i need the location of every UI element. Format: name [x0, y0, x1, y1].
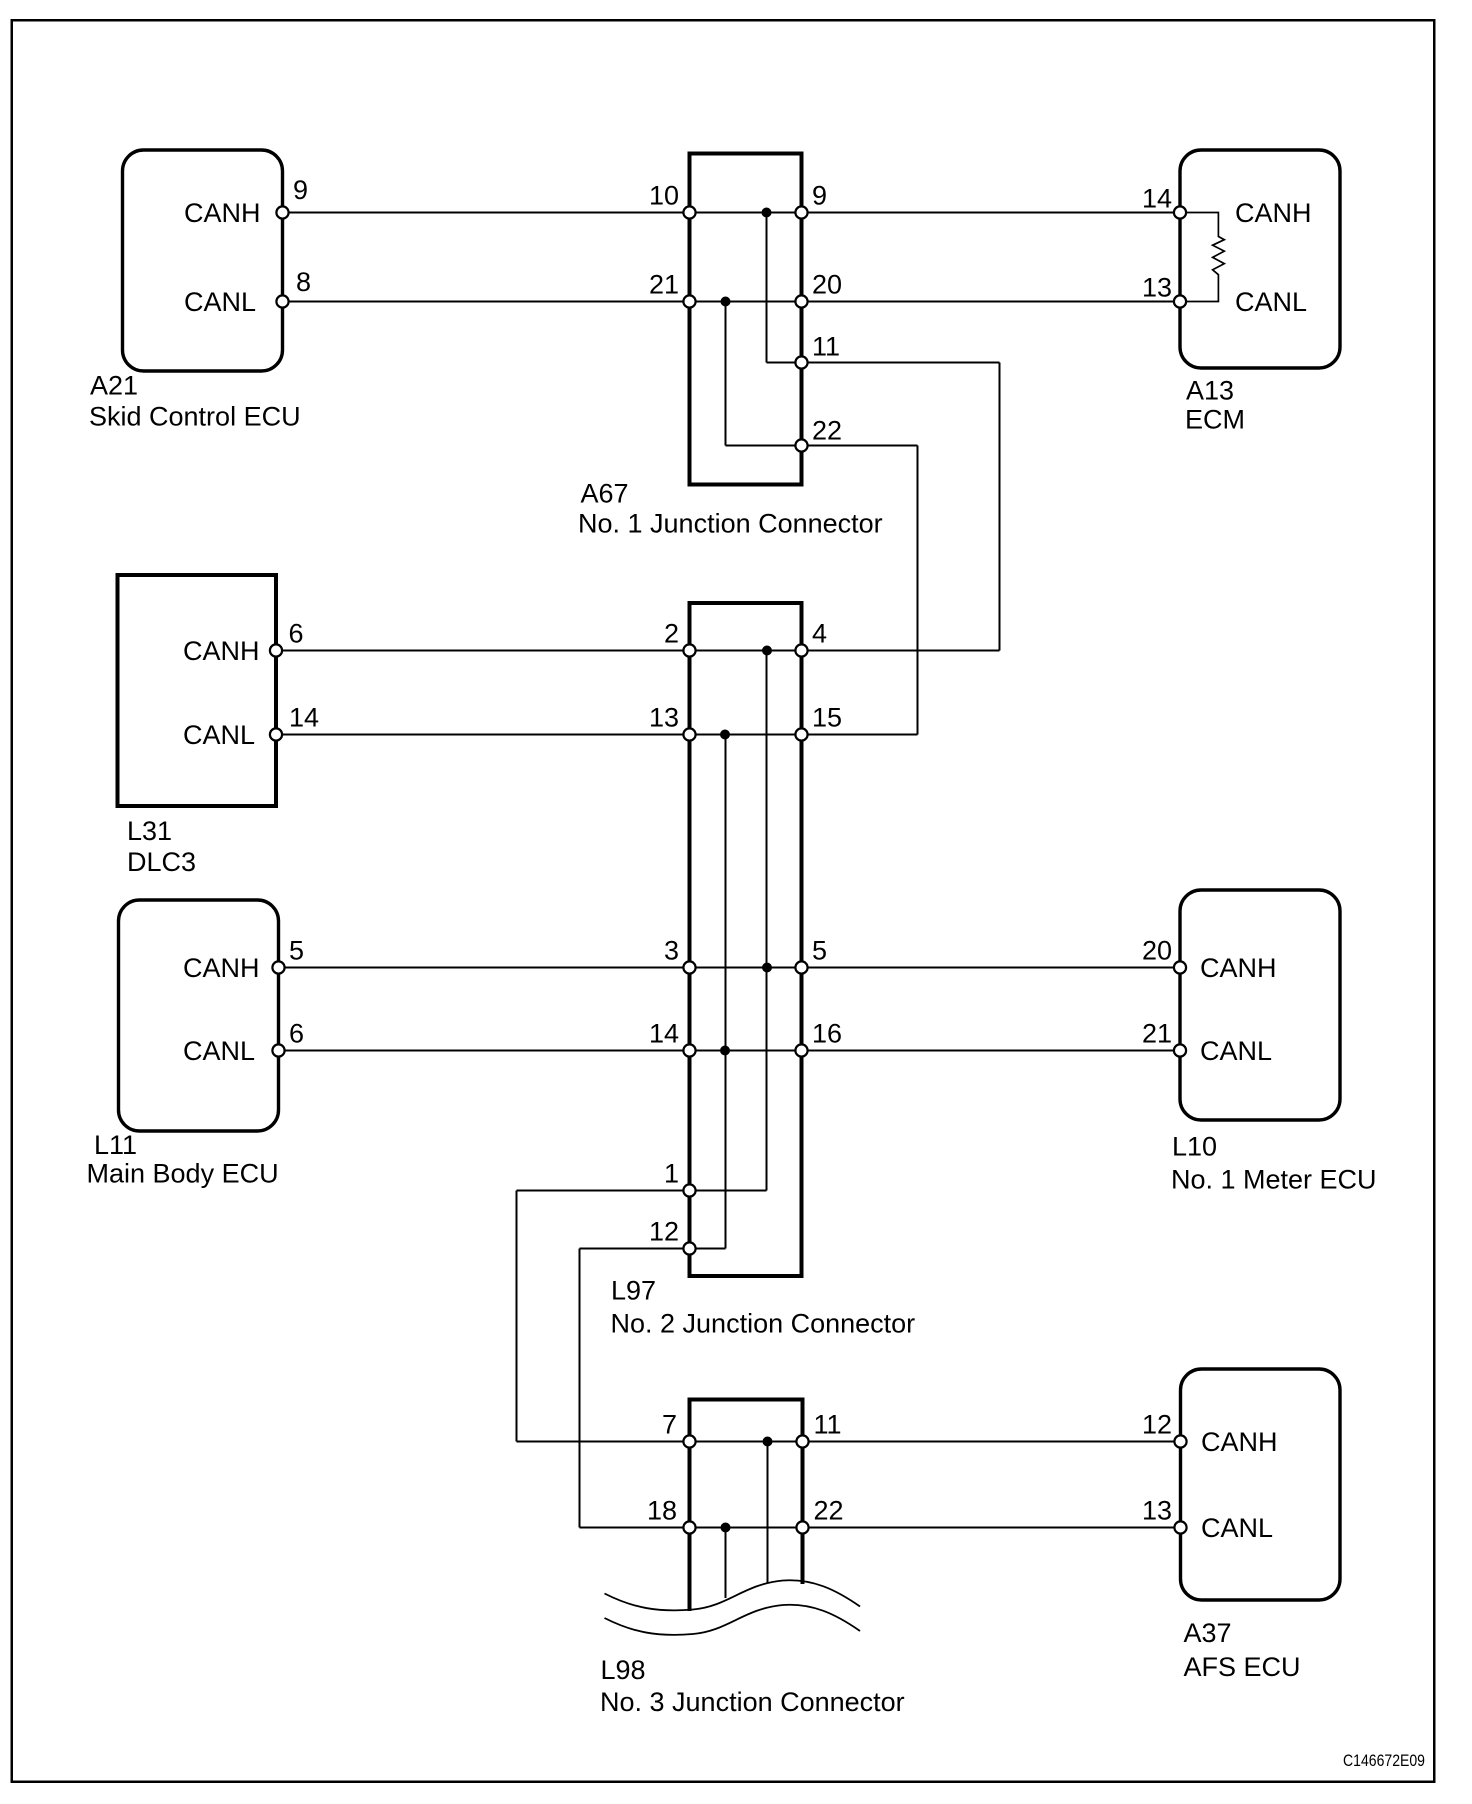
svg-text:6: 6 — [289, 1019, 304, 1049]
svg-text:22: 22 — [812, 416, 842, 446]
svg-text:9: 9 — [812, 181, 827, 211]
svg-text:No. 2 Junction Connector: No. 2 Junction Connector — [611, 1309, 916, 1339]
svg-text:A37: A37 — [1184, 1618, 1232, 1648]
svg-text:L97: L97 — [611, 1276, 656, 1306]
svg-text:CANH: CANH — [1201, 1427, 1278, 1457]
svg-text:16: 16 — [812, 1019, 842, 1049]
svg-text:CANH: CANH — [183, 636, 260, 666]
svg-text:C146672E09: C146672E09 — [1343, 1751, 1425, 1770]
svg-text:Main Body ECU: Main Body ECU — [87, 1159, 279, 1189]
svg-text:9: 9 — [293, 175, 308, 205]
svg-text:8: 8 — [296, 267, 311, 297]
svg-text:CANL: CANL — [183, 1036, 255, 1066]
svg-text:ECM: ECM — [1185, 405, 1245, 435]
svg-text:5: 5 — [289, 936, 304, 966]
svg-text:A21: A21 — [90, 371, 138, 401]
svg-text:21: 21 — [649, 270, 679, 300]
svg-text:A67: A67 — [581, 479, 629, 509]
svg-text:13: 13 — [649, 703, 679, 733]
svg-text:1: 1 — [664, 1159, 679, 1189]
svg-text:11: 11 — [812, 332, 840, 362]
svg-text:CANH: CANH — [1200, 953, 1277, 983]
svg-text:22: 22 — [814, 1496, 844, 1526]
svg-text:12: 12 — [649, 1217, 679, 1247]
svg-text:14: 14 — [649, 1019, 679, 1049]
svg-text:20: 20 — [812, 270, 842, 300]
svg-text:A13: A13 — [1186, 376, 1234, 406]
svg-text:CANH: CANH — [184, 198, 261, 228]
svg-text:No. 1 Meter ECU: No. 1 Meter ECU — [1171, 1165, 1377, 1195]
svg-text:20: 20 — [1142, 936, 1172, 966]
svg-text:CANL: CANL — [1201, 1513, 1273, 1543]
svg-text:11: 11 — [814, 1410, 842, 1440]
svg-text:13: 13 — [1142, 1496, 1172, 1526]
svg-text:21: 21 — [1142, 1019, 1172, 1049]
svg-text:DLC3: DLC3 — [127, 847, 196, 877]
svg-text:CANL: CANL — [183, 720, 255, 750]
svg-text:5: 5 — [812, 936, 827, 966]
svg-text:CANH: CANH — [183, 953, 260, 983]
svg-text:3: 3 — [664, 936, 679, 966]
svg-text:Skid Control ECU: Skid Control ECU — [89, 402, 301, 432]
svg-text:CANL: CANL — [1200, 1036, 1272, 1066]
svg-text:No. 1 Junction Connector: No. 1 Junction Connector — [578, 509, 883, 539]
svg-text:L10: L10 — [1172, 1132, 1217, 1162]
svg-text:L11: L11 — [94, 1130, 137, 1160]
svg-text:2: 2 — [664, 619, 679, 649]
svg-text:10: 10 — [649, 181, 679, 211]
svg-text:13: 13 — [1142, 273, 1172, 303]
svg-text:No. 3 Junction Connector: No. 3 Junction Connector — [600, 1687, 905, 1717]
svg-text:14: 14 — [1142, 184, 1172, 214]
svg-text:15: 15 — [812, 703, 842, 733]
svg-text:18: 18 — [647, 1496, 677, 1526]
svg-text:12: 12 — [1142, 1410, 1172, 1440]
svg-text:7: 7 — [662, 1410, 677, 1440]
svg-text:6: 6 — [289, 619, 304, 649]
svg-text:CANH: CANH — [1235, 198, 1312, 228]
svg-text:14: 14 — [289, 703, 319, 733]
svg-text:CANL: CANL — [1235, 287, 1307, 317]
svg-text:4: 4 — [812, 619, 827, 649]
svg-text:L31: L31 — [127, 816, 172, 846]
svg-text:CANL: CANL — [184, 287, 256, 317]
svg-text:L98: L98 — [601, 1655, 646, 1685]
svg-text:AFS ECU: AFS ECU — [1184, 1652, 1301, 1682]
